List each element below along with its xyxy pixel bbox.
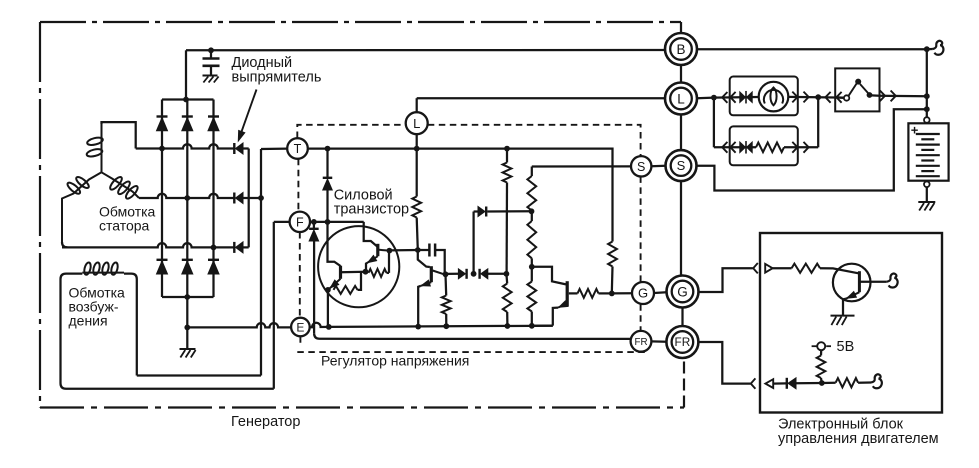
- wire terminal G to ECU: [699, 268, 753, 292]
- connector chevrons at switch box right: [880, 90, 885, 101]
- svg-text:FR: FR: [675, 335, 691, 349]
- junction L branch: [711, 95, 717, 101]
- stator coil (left phase): [62, 172, 102, 242]
- transistor Q5 collector: [859, 281, 886, 283]
- battery BAT box: [908, 123, 948, 180]
- regulator terminal Т: [287, 138, 308, 159]
- connector at ECU FR input: [751, 378, 756, 388]
- resistor R10 (Q4 base to G): [569, 292, 578, 294]
- resistor R12 (lamp shunt): [756, 143, 784, 153]
- wire S-line: [532, 165, 631, 167]
- wire internal L to external L: [417, 97, 666, 99]
- wire FR internal to FR external: [651, 340, 666, 343]
- ground of battery: [926, 187, 928, 202]
- svg-text:+: +: [911, 123, 919, 138]
- diode D12 (threshold pair left): [447, 273, 459, 275]
- transistor Q5 circle: [833, 264, 871, 302]
- regulator terminal L: [406, 112, 428, 134]
- diode top bus: [162, 98, 214, 100]
- junction divider / Q4 collector: [529, 264, 535, 270]
- transistor Q3 collector: [433, 271, 445, 275]
- wire lamp output down to resistor output: [817, 97, 819, 147]
- junction switch / bus: [924, 93, 930, 99]
- wire T-line: [308, 149, 613, 167]
- connector at ECU G input: [753, 263, 758, 273]
- stator coil (right phase): [102, 172, 140, 198]
- junction Q3 collector node: [443, 271, 449, 277]
- svg-text:транзистор: транзистор: [334, 202, 409, 218]
- power transistor circle: [318, 226, 399, 307]
- wire L circle to T-line: [416, 134, 418, 149]
- terminal B: [665, 33, 697, 65]
- stator loop corner: [62, 242, 67, 247]
- diode D14 (sense diode): [474, 210, 478, 212]
- resistor R1 (Q1 bias): [369, 269, 387, 277]
- resistor R14 (pull-up to 5V): [820, 378, 823, 383]
- transistor Q2 base bar: [339, 266, 342, 279]
- wire switch to bus: [880, 95, 927, 98]
- ignition switch box: [835, 68, 879, 111]
- diode D1 (upper, phase 1): [157, 115, 168, 117]
- svg-text:В: В: [676, 42, 685, 57]
- 5V supply terminal: [817, 342, 825, 350]
- ground of rectifier: [180, 348, 196, 350]
- ECU box: [760, 233, 942, 413]
- wire L branch down to resistor path: [713, 98, 715, 148]
- resistor R8 (divider middle): [531, 211, 533, 222]
- junction between threshold diodes: [471, 271, 477, 277]
- connector chevrons at lamp box right: [792, 92, 797, 103]
- wire R13 to Q5 base: [820, 268, 859, 273]
- junction G-line / R11: [609, 291, 615, 297]
- wire B to right bus: [697, 48, 927, 50]
- junction Q2 emitter node: [325, 287, 331, 293]
- junction E-line / R9: [529, 323, 535, 329]
- field winding box top-right: [124, 274, 137, 376]
- junction sense / divider: [529, 208, 535, 214]
- svg-text:Регулятор напряжения: Регулятор напряжения: [321, 353, 469, 369]
- resistor R7 (divider top): [531, 167, 533, 177]
- svg-text:L: L: [413, 116, 420, 131]
- wire into resistor box: [714, 146, 756, 148]
- regulator terminal Е: [291, 318, 310, 337]
- svg-text:статора: статора: [99, 218, 150, 234]
- diode D6 (lower, phase 3): [208, 259, 219, 261]
- junction E-line / Q3 emitter: [415, 324, 421, 330]
- connector chevrons at resistor box left: [722, 142, 727, 153]
- terminal S external: [666, 150, 697, 181]
- wire F vertical: [273, 222, 275, 389]
- junction T-line / L branch: [414, 146, 420, 152]
- rectifier column 1: [161, 100, 163, 298]
- stator coil (vertical phase): [101, 124, 103, 172]
- junction R5 / threshold node: [504, 271, 510, 277]
- capacitor C1 noise suppressor: [210, 50, 212, 57]
- transistor Q3 base lead: [418, 250, 430, 267]
- svg-text:S: S: [637, 160, 645, 174]
- transistor Q3 base bar: [430, 266, 433, 282]
- wire F-line: [310, 221, 364, 223]
- regulator terminal FR: [631, 331, 652, 352]
- wire phase 1 diode output: [242, 147, 249, 149]
- terminal L external: [665, 83, 697, 115]
- generator enclosure dash-dot border (bottom edge): [40, 406, 684, 408]
- resistor R2 (Q2 bias): [334, 286, 358, 294]
- svg-text:выпрямитель: выпрямитель: [232, 70, 322, 86]
- battery BAT top terminal: [924, 117, 930, 123]
- wire terminal FR to ECU: [698, 342, 750, 384]
- svg-text:Т: Т: [294, 142, 302, 156]
- wire L to S: [680, 115, 682, 151]
- wire L to lamp network: [697, 96, 714, 99]
- resistor R9 (divider bottom): [531, 267, 533, 282]
- ignition switch SW1: [838, 96, 844, 99]
- wire joining phase1/phase3 diode outputs: [248, 149, 250, 248]
- transistor Q3 emitter: [421, 282, 432, 286]
- junction E-line / R4: [443, 323, 449, 329]
- transistor Q4 base bar: [566, 281, 569, 306]
- wire field right end to T net: [137, 374, 261, 376]
- wire G-line to terminal G: [612, 292, 633, 294]
- transistor Q2 emitter: [330, 279, 341, 289]
- diode D7 (phase 1 trio): [233, 143, 235, 154]
- wire diode to node: [796, 382, 822, 384]
- junction T-line / R5 branch: [504, 146, 510, 152]
- battery BAT plates: [916, 133, 940, 135]
- diode D15 (ECU FR input): [786, 378, 788, 389]
- transistor Q1 emitter: [367, 256, 378, 263]
- resistor R11 (S net to G net): [611, 167, 613, 242]
- terminal G external: [667, 276, 699, 308]
- diode D2 (upper, phase 2): [182, 115, 193, 117]
- svg-text:управления двигателем: управления двигателем: [778, 431, 939, 447]
- wire Q4 collector: [532, 267, 566, 285]
- transistor Q5 base bar: [858, 271, 861, 292]
- voltage regulator dashed box right edge: [640, 176, 642, 330]
- junction E-line / darlington emitter: [326, 324, 332, 330]
- wire phase 3 diode output: [242, 246, 249, 248]
- leader arrow from label to rectifier diode: [241, 90, 257, 135]
- diode D4 (lower, phase 1): [157, 259, 168, 261]
- wire resistor to output: [784, 146, 818, 148]
- wire R2 to Q2 base: [358, 272, 362, 290]
- connector chevrons at resistor box right: [792, 142, 797, 153]
- wire zener sense branch up: [472, 212, 474, 274]
- wire F to Q1 collector: [364, 222, 378, 247]
- wire FR-line corner: [314, 333, 631, 339]
- svg-text:Генератор: Генератор: [231, 414, 300, 430]
- svg-text:5В: 5В: [837, 339, 855, 355]
- diode D9 (phase 3 trio): [233, 242, 235, 253]
- wire S to G: [680, 181, 682, 276]
- junction E-line / R6: [505, 323, 511, 329]
- transistor Q4 emitter: [558, 303, 567, 307]
- resistor R4 (Q3 collector load): [444, 274, 447, 295]
- resistor R3 (L to driver): [416, 149, 418, 197]
- resistor R13 (ECU G input): [792, 264, 820, 273]
- capacitor C2: [418, 249, 430, 251]
- wire collector node down to R1: [388, 251, 390, 273]
- junction phase 2 output / terminal T net: [258, 195, 264, 201]
- charge lamp box: [730, 77, 798, 116]
- battery BAT bottom terminal: [924, 182, 930, 188]
- wire lamp output to ignition switch: [818, 96, 843, 99]
- junction phase 3 / column 3: [211, 245, 217, 251]
- wire to resistor R13: [773, 267, 792, 269]
- lamp shunt resistor box: [730, 126, 798, 165]
- svg-text:L: L: [677, 91, 685, 106]
- svg-text:F: F: [296, 215, 304, 229]
- field winding box top-left: [61, 274, 83, 389]
- wire S internal to S external: [651, 165, 665, 168]
- wire phase 2 diode output: [242, 197, 261, 199]
- wire phase 3 line with hops: [62, 243, 234, 247]
- wire to diode D15: [773, 382, 786, 384]
- junction on E-line at rectifier ground: [184, 325, 190, 331]
- wire phase 1 line with hops: [136, 144, 234, 148]
- wire terminal F lead: [274, 221, 290, 223]
- svg-text:Е: Е: [296, 320, 304, 334]
- junction FR divider: [819, 380, 825, 386]
- squiggle wire continuation at FR channel: [871, 374, 882, 388]
- squiggle wire continuation at B: [927, 48, 933, 50]
- wire T net vertical (to field / phase2 tap): [260, 149, 262, 376]
- wire phase2 line with hops: [139, 194, 234, 198]
- junction bottom join: [184, 294, 190, 300]
- junction collector node D1: [387, 248, 393, 254]
- voltage regulator dashed box left edge: [298, 159, 300, 346]
- wire G to FR: [681, 308, 683, 327]
- generator enclosure dash-dot border (left edge): [39, 22, 41, 408]
- rectifier bottom join: [162, 296, 214, 298]
- field coil: [82, 272, 124, 274]
- resistor R5 (T-line dropper): [506, 149, 508, 163]
- svg-text:S: S: [677, 158, 686, 173]
- wire from B+ bus down to diode top bus: [185, 50, 187, 99]
- wire terminal T lead: [261, 147, 288, 150]
- wire G internal to G external: [654, 291, 667, 294]
- resistor R6 (threshold to E): [505, 274, 508, 284]
- wire stator phase 1 feed: [102, 122, 136, 148]
- junction phase 2 / column 2: [184, 195, 190, 201]
- svg-text:дения: дения: [69, 313, 108, 329]
- junction B bus: [924, 46, 930, 52]
- junction Q1 emitter / Q2 base: [363, 269, 369, 275]
- junction S-sense / bus: [924, 106, 930, 112]
- wire lamp to right junction: [788, 96, 818, 99]
- junction F-line / darlington collector branch: [325, 219, 331, 225]
- wire bottom join to E-line: [186, 297, 188, 350]
- wire terminal S to battery sense: [697, 109, 927, 190]
- diode D13 (threshold pair right): [478, 269, 480, 279]
- rectifier column 2: [186, 100, 188, 298]
- connector bowtie at resistor box: [740, 142, 746, 153]
- wire Q2 emitter to E-line: [327, 290, 329, 327]
- wire E-line with hops over field wires: [187, 323, 291, 327]
- voltage regulator dashed box top edge: [297, 125, 640, 156]
- svg-text:G: G: [638, 286, 648, 301]
- junction diode top bus: [183, 97, 189, 103]
- wire Q4 emitter to E-line: [532, 324, 553, 326]
- charge warning lamp: [759, 82, 789, 112]
- diode D5 (lower, phase 2): [182, 259, 193, 261]
- terminal L lead up: [416, 98, 418, 112]
- wire border corner into terminal B: [680, 22, 682, 33]
- wire R1 to collector node: [387, 272, 390, 274]
- wire Q2 base line: [341, 271, 366, 274]
- terminal FR external: [666, 326, 698, 358]
- wire E-line inside regulator: [310, 323, 553, 327]
- diode D8 (phase 2 trio): [233, 193, 235, 204]
- wire Q1 bar to collector node: [379, 249, 390, 252]
- right bus vertical: [926, 49, 928, 117]
- transistor Q1 base bar: [376, 244, 379, 256]
- ground below capacitor C1: [203, 75, 218, 77]
- junction T-line / diode branch: [325, 146, 331, 152]
- svg-text:G: G: [677, 284, 688, 299]
- wire collector node to driver stage: [389, 249, 417, 252]
- wire R15 to squiggle: [858, 381, 871, 383]
- regulator terminal S: [631, 156, 651, 176]
- junction F-line / FR monitor diode: [311, 219, 317, 225]
- junction driver node: [415, 247, 421, 253]
- junction phase 1 / column 1: [159, 146, 165, 152]
- squiggle wire continuation at Q5 collector: [887, 274, 898, 288]
- resistor R15 (ECU FR series): [822, 382, 836, 385]
- diode D10 (T to F branch): [326, 149, 328, 178]
- regulator terminal G: [632, 282, 654, 304]
- connector chevrons at switch box left: [825, 92, 830, 103]
- wire Q2 collector to F net: [328, 222, 341, 266]
- generator enclosure dash-dot border (top edge): [40, 21, 681, 23]
- ground of Q5 emitter: [831, 315, 855, 317]
- rectifier column 3: [212, 100, 214, 298]
- wire field left end to terminal F: [66, 388, 274, 390]
- diode D11 (F to FR monitor): [313, 222, 315, 229]
- generator enclosure dash-dot border (right stub below FR terminal): [683, 358, 685, 408]
- transistor Q5 emitter: [846, 292, 859, 298]
- junction on B+ bus above capacitor: [208, 47, 214, 53]
- voltage regulator dashed box bottom edge: [297, 351, 645, 353]
- wire B to L: [680, 65, 682, 83]
- diode D3 (upper, phase 3): [208, 115, 219, 117]
- regulator terminal F: [290, 212, 310, 232]
- junction lamp output: [815, 94, 821, 100]
- wire B+ bus from rectifier to terminal B: [186, 49, 665, 52]
- wire into lamp box: [714, 96, 759, 99]
- connector chevrons at lamp box left: [722, 92, 727, 103]
- connector bowtie at lamp box: [740, 92, 746, 103]
- svg-text:FR: FR: [634, 337, 647, 348]
